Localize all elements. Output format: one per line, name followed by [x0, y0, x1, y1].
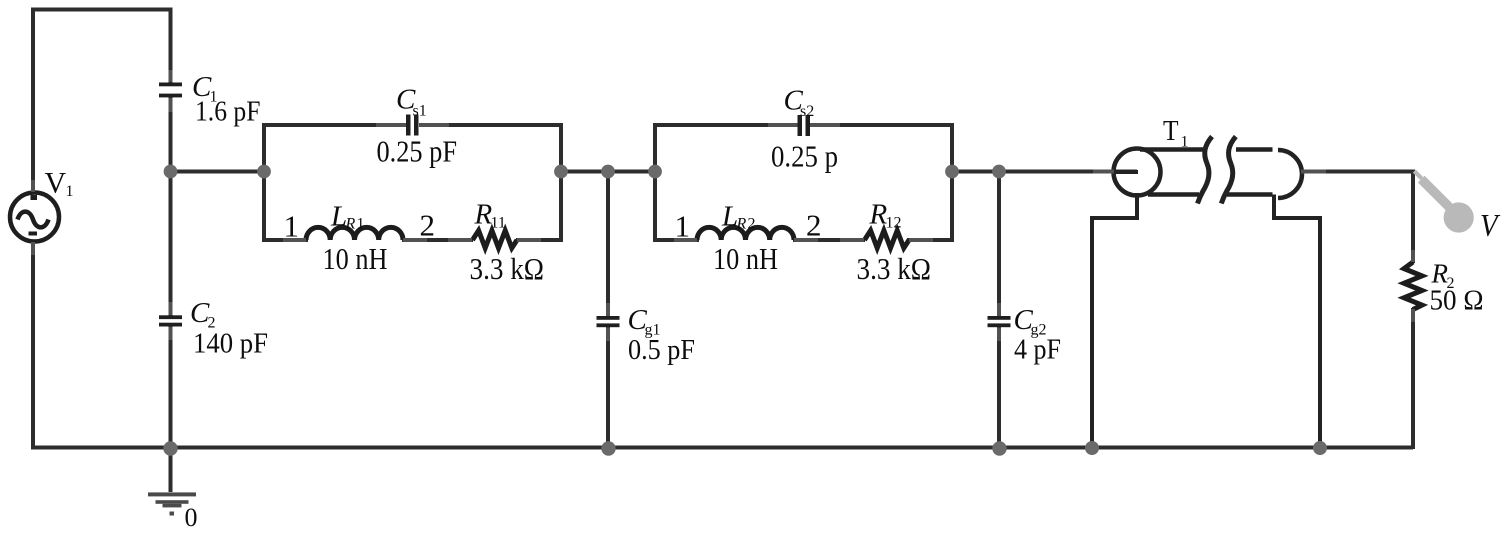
wire C2 bottom terminal: [169, 327, 173, 340]
wire V1 top terminal: [31, 180, 35, 192]
svg-text:11: 11: [491, 215, 506, 232]
wire block1 top branch right: [419, 123, 563, 127]
T1 left ground stub: [1092, 193, 1137, 449]
wire block1 R to right: [516, 238, 563, 242]
svg-text:10 nH: 10 nH: [713, 241, 778, 276]
wire block1 right vertical: [559, 125, 563, 240]
T1 primary circle: [1114, 149, 1161, 196]
wire main rail segment A: [171, 170, 265, 174]
svg-text:3.3 kΩ: 3.3 kΩ: [470, 251, 545, 286]
wire block2 top branch right: [810, 123, 954, 127]
wire Cg2 lower: [997, 326, 1001, 449]
wire Cg2 upper: [997, 172, 1001, 317]
T1 right end cap arc: [1278, 150, 1302, 198]
wire main rail segment C: [952, 170, 1137, 174]
wire T1 left entry terminal: [1093, 170, 1114, 174]
node dot Cg1 top: [601, 165, 615, 179]
svg-text:50 Ω: 50 Ω: [1430, 285, 1484, 317]
transformer T1: [1092, 137, 1320, 450]
wire main rail segment B: [561, 170, 655, 174]
T1 bottom line left: [1148, 192, 1199, 197]
wire C2 to bottom rail: [169, 326, 173, 449]
wire V1 bottom terminal: [31, 242, 35, 255]
wire C1 to C2 through node: [169, 96, 173, 316]
svg-text:V: V: [45, 167, 67, 200]
svg-text:R: R: [345, 216, 356, 233]
wire T1 right exit terminal: [1301, 170, 1326, 174]
wire T1 output to R2 corner: [1301, 172, 1413, 264]
wire block2 right vertical: [950, 125, 954, 240]
node dot T1 left stub bottom: [1085, 441, 1099, 455]
wire R2 to bottom rail: [1411, 308, 1415, 449]
svg-text:s1: s1: [413, 103, 427, 120]
wire R11 right terminal: [517, 238, 541, 242]
inductor LR2: [697, 227, 794, 240]
wire ground stub: [169, 447, 173, 492]
T1 top line right: [1236, 147, 1273, 152]
wire Cs2 right terminal: [810, 123, 840, 127]
wire Cg1 top terminal: [606, 303, 610, 316]
wire R12 left terminal: [840, 238, 864, 242]
svg-text:0.25 p: 0.25 p: [771, 139, 838, 174]
wire block1 bottom branch: [262, 238, 308, 242]
svg-text:R: R: [736, 216, 747, 233]
svg-text:10 nH: 10 nH: [323, 241, 388, 276]
wire block2 bottom branch: [653, 238, 699, 242]
capacitor Cg2: [988, 316, 1011, 327]
svg-text:2: 2: [420, 207, 436, 242]
wire Cs2 left terminal: [768, 123, 798, 127]
svg-text:0: 0: [185, 503, 198, 532]
T1 right ground stub: [1274, 195, 1320, 450]
T1 break squiggle left: [1198, 137, 1213, 204]
output probe V: [1413, 170, 1423, 180]
wire block2 R to right: [907, 238, 954, 242]
wire block1 left vertical: [262, 125, 266, 240]
node dot T1 right stub bottom: [1313, 441, 1327, 455]
svg-text:0.5 pF: 0.5 pF: [628, 334, 695, 366]
wire C1 bottom terminal: [169, 98, 173, 112]
svg-text:2: 2: [806, 207, 822, 242]
wire V1 bottom to bottom rail: [31, 242, 35, 450]
wire LR2 right terminal: [794, 238, 818, 242]
wire Cg1 upper: [606, 172, 610, 317]
wire bottom rail: [31, 446, 1413, 450]
capacitor Cs1: [406, 115, 419, 136]
svg-text:2: 2: [748, 216, 756, 233]
wire R2 top terminal: [1411, 250, 1415, 262]
node dot Cg1 bottom: [601, 441, 615, 455]
node dot Cg2 top: [992, 165, 1006, 179]
svg-text:4 pF: 4 pF: [1014, 334, 1061, 366]
svg-text:1: 1: [357, 216, 365, 233]
svg-text:140 pF: 140 pF: [193, 328, 268, 360]
inductor LR1: [306, 227, 403, 240]
wire Cs1 left terminal: [376, 123, 406, 127]
T1 top line left: [1140, 147, 1205, 152]
V1 plus mark: [31, 195, 38, 200]
wire Cs1 right terminal: [419, 123, 449, 127]
wire LR1 left terminal: [283, 238, 306, 242]
svg-text:1: 1: [1181, 134, 1189, 151]
wire C1 top terminal: [169, 70, 173, 82]
wire block2 left vertical: [653, 125, 657, 240]
node dot Cg2 bottom: [992, 441, 1006, 455]
wire Cg1 bottom terminal: [606, 328, 610, 342]
wire R12 right terminal: [909, 238, 933, 242]
wire top-left loop: [33, 10, 171, 193]
svg-text:0.25 pF: 0.25 pF: [377, 134, 458, 169]
capacitor C2: [159, 315, 182, 326]
node dot block2 right: [945, 165, 959, 179]
svg-text:12: 12: [886, 215, 902, 232]
wire LR2 left terminal: [674, 238, 697, 242]
wire block1 top branch left: [262, 123, 406, 127]
voltage source V1: [10, 193, 59, 242]
T1 break squiggle right: [1221, 137, 1236, 204]
wire Cg2 top terminal: [997, 303, 1001, 316]
svg-text:3.3 kΩ: 3.3 kΩ: [857, 251, 932, 286]
resistor R11: [473, 231, 518, 249]
wire block2 top branch left: [653, 123, 797, 127]
wire Cg1 lower: [606, 326, 610, 449]
T1 inner stub: [1114, 170, 1138, 174]
svg-text:1.6 pF: 1.6 pF: [195, 96, 261, 128]
svg-text:T: T: [1163, 115, 1179, 147]
node dot block1 left: [257, 165, 271, 179]
svg-text:1: 1: [675, 208, 691, 243]
wire block2 L-R link: [793, 238, 865, 242]
svg-text:V: V: [1480, 207, 1501, 243]
svg-text:s2: s2: [800, 103, 814, 120]
resistor R2: [1404, 262, 1422, 310]
node dot main rail x170: [164, 165, 178, 179]
V1 minus mark: [29, 232, 38, 236]
capacitor C1: [159, 83, 182, 98]
wire block1 L-R link: [402, 238, 473, 242]
node dot block1 right: [554, 165, 568, 179]
capacitor Cs2: [798, 115, 811, 136]
wire LR1 right terminal: [403, 238, 427, 242]
resistor R12: [865, 231, 910, 249]
wire R11 left terminal: [448, 238, 472, 242]
wire C2 top terminal: [169, 302, 173, 315]
node dot block2 left: [648, 165, 662, 179]
wire R2 bottom terminal: [1411, 309, 1415, 322]
wire Cg2 bottom terminal: [997, 328, 1001, 342]
svg-text:1: 1: [284, 208, 300, 243]
svg-text:1: 1: [66, 183, 74, 200]
T1 bottom line right: [1227, 192, 1273, 197]
node dot ground junction: [163, 441, 177, 455]
ground symbol 0: [148, 492, 196, 515]
capacitor Cg1: [597, 316, 620, 327]
